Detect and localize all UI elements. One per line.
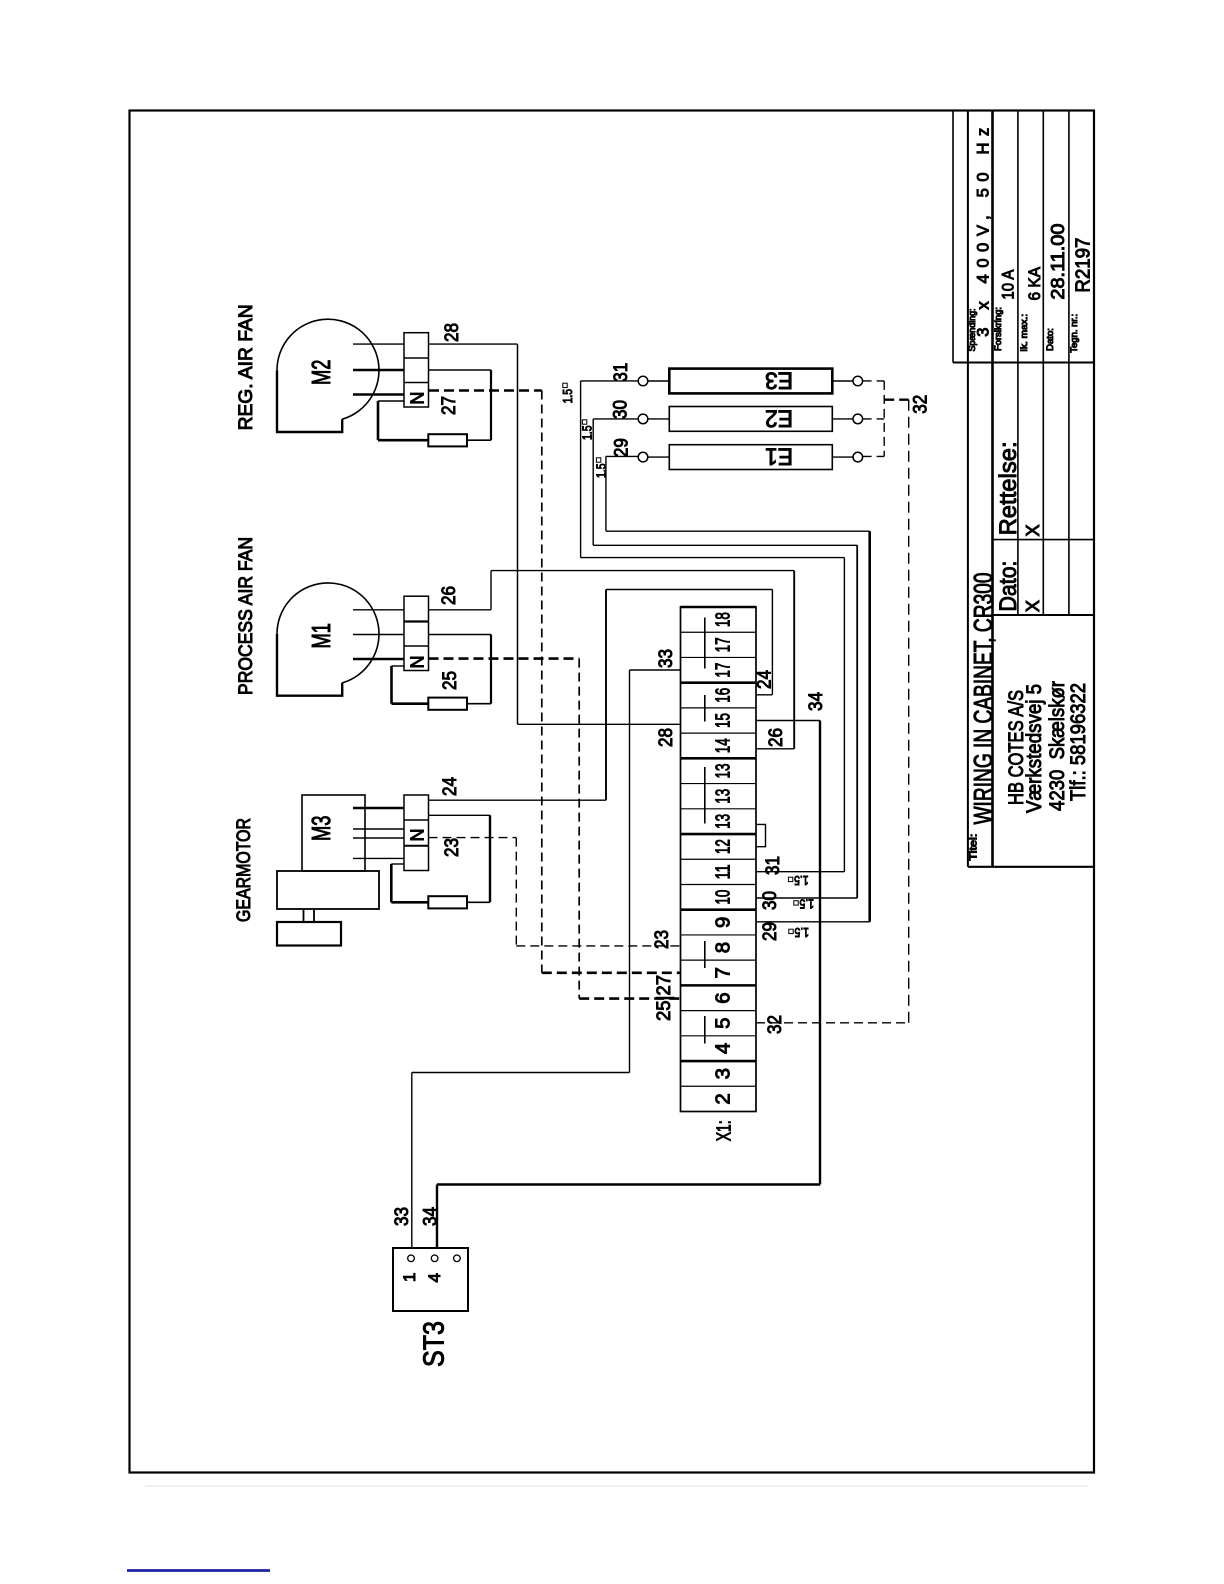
label REG. AIR FAN <box>236 304 257 430</box>
svg-text:Rettelse:: Rettelse: <box>995 441 1022 535</box>
heating element E3 <box>669 369 832 394</box>
svg-text:1.5: 1.5 <box>800 897 815 912</box>
label pin 1 <box>400 1273 419 1282</box>
svg-text:1.5: 1.5 <box>560 389 575 404</box>
label X1: <box>713 1120 736 1141</box>
svg-text:34: 34 <box>421 1207 442 1226</box>
label M2 <box>306 360 336 385</box>
svg-text:1: 1 <box>400 1273 419 1282</box>
svg-text:E2: E2 <box>765 404 793 431</box>
cross-section label 1.5mm2 <box>580 420 595 440</box>
wire 25 dashed (M1 N to X1:6) <box>429 659 681 999</box>
label 26 at M1 <box>439 586 460 605</box>
svg-text:N: N <box>407 656 427 669</box>
svg-text:M3: M3 <box>306 816 336 841</box>
svg-text:32: 32 <box>911 395 932 414</box>
terminal strip X1 body <box>681 607 757 1112</box>
E3 left terminal <box>638 376 648 386</box>
svg-text:25|27: 25|27 <box>654 975 675 1021</box>
E3 right terminal <box>853 376 863 386</box>
label 24 at M3 <box>440 777 461 796</box>
label 31 at E3 <box>611 363 632 382</box>
svg-text:1.5: 1.5 <box>794 873 809 888</box>
cross-section label 1.5mm2 <box>594 458 609 478</box>
svg-text:29: 29 <box>611 438 632 457</box>
label N (M1 terminal) <box>407 656 427 669</box>
blue footer line <box>127 1569 270 1572</box>
svg-text:GEARMOTOR: GEARMOTOR <box>234 818 255 922</box>
label 34 at ST3 <box>421 1207 442 1226</box>
svg-text:24: 24 <box>755 670 776 689</box>
terminal numbers X1 <box>712 612 735 1104</box>
wire 32 dashed (heaters common to X1:5) <box>756 381 909 1023</box>
M3 gearbox <box>277 871 379 909</box>
capacitor of M3 with loop wiring <box>391 815 490 908</box>
cross-section label 1.5mm2 <box>789 925 809 940</box>
svg-text:31: 31 <box>611 363 632 382</box>
svg-text:30: 30 <box>760 891 781 910</box>
svg-text:24: 24 <box>440 777 461 796</box>
M2 stub wires <box>353 344 404 394</box>
drawing frame border <box>130 111 1095 1473</box>
label M1 <box>306 623 336 648</box>
connector ST3 body <box>393 1248 468 1311</box>
E1 right terminal <box>853 452 863 462</box>
svg-text:33: 33 <box>392 1207 413 1226</box>
svg-text:17: 17 <box>712 637 735 652</box>
wire 28 (M2 to X1:15) <box>429 344 681 724</box>
ST3 pin 4 terminal <box>431 1255 438 1262</box>
title text WIRING IN CABINET CR300 <box>969 573 998 861</box>
wire 33 (ST3 pin1 to X1:17) <box>412 670 681 1248</box>
label 28 at M2 <box>442 323 463 342</box>
svg-text:13: 13 <box>712 814 735 829</box>
wire 24 (M3 to X1:16) <box>429 590 773 801</box>
E1 terminal stubs <box>648 456 853 458</box>
svg-text:28.11.00: 28.11.00 <box>1048 224 1068 300</box>
svg-text:32: 32 <box>765 1015 786 1034</box>
svg-text:3 x 400V, 50 Hz: 3 x 400V, 50 Hz <box>975 128 993 337</box>
svg-text:18: 18 <box>712 612 735 627</box>
M2 terminal box <box>404 333 429 407</box>
label N (M3 terminal) <box>407 829 427 842</box>
svg-text:Tegn. nr.:: Tegn. nr.: <box>1069 314 1080 353</box>
label 33 at X1 <box>656 649 677 668</box>
svg-text:Tlf.: 58196322: Tlf.: 58196322 <box>1066 683 1090 801</box>
svg-text:X: X <box>1023 524 1043 536</box>
svg-text:23: 23 <box>652 930 673 949</box>
ST3 pin 1 terminal <box>408 1255 415 1262</box>
svg-text:5: 5 <box>712 1018 735 1029</box>
svg-text:8: 8 <box>712 942 735 953</box>
svg-text:X: X <box>1023 600 1043 612</box>
E2 terminal stubs <box>648 418 853 420</box>
M3 output block <box>277 922 341 946</box>
E2 left terminal <box>638 414 648 424</box>
svg-text:15: 15 <box>712 713 735 728</box>
svg-text:33: 33 <box>656 649 677 668</box>
svg-text:M2: M2 <box>306 360 336 385</box>
motor M3 body <box>302 795 365 871</box>
svg-text:Dato:: Dato: <box>995 561 1022 612</box>
svg-text:26: 26 <box>766 728 787 747</box>
faint scan line <box>145 1485 1088 1487</box>
svg-text:Dato:: Dato: <box>1045 328 1056 351</box>
label 27 at M2 <box>439 396 460 415</box>
cross-section label 1.5mm2 <box>794 897 814 912</box>
svg-text:Forsikring:: Forsikring: <box>993 307 1004 351</box>
M1 stub wires <box>353 610 404 659</box>
svg-text:4: 4 <box>712 1043 735 1054</box>
svg-text:PROCESS AIR FAN: PROCESS AIR FAN <box>236 537 257 695</box>
wire 23 dashed (M3 N to X1:8) <box>429 838 681 946</box>
svg-text:23: 23 <box>442 838 463 857</box>
label 32 at heaters <box>911 395 932 414</box>
wire 30 (E2 to X1:10) <box>593 419 857 898</box>
svg-text:10 A: 10 A <box>999 269 1018 300</box>
svg-text:11: 11 <box>712 864 735 879</box>
motor M1 (PROCESS AIR FAN blower) <box>277 583 379 696</box>
label 24 at X1 <box>755 670 776 689</box>
svg-text:17: 17 <box>712 663 735 678</box>
svg-text:R2197: R2197 <box>1073 238 1095 293</box>
label 31 at X1 <box>763 856 784 875</box>
svg-text:M1: M1 <box>306 623 336 648</box>
svg-text:34: 34 <box>806 692 827 711</box>
heating element E1 <box>669 445 832 470</box>
svg-text:28: 28 <box>656 728 677 747</box>
capacitor of M1 with loop wiring <box>392 635 492 710</box>
svg-text:E1: E1 <box>765 443 793 470</box>
label E1 <box>765 443 793 470</box>
cross-section label 1.5mm2 <box>788 873 808 888</box>
label 34 at X1 <box>806 692 827 711</box>
title block revision texts <box>995 441 1043 612</box>
label ST3 <box>419 1321 451 1367</box>
heating element E2 <box>669 407 832 432</box>
E2 right terminal <box>853 414 863 424</box>
wire 31 (E3 to X1:11) <box>581 381 845 872</box>
svg-text:ST3: ST3 <box>419 1321 451 1367</box>
svg-text:12: 12 <box>712 839 735 854</box>
label 28 at X1 <box>656 728 677 747</box>
svg-text:25: 25 <box>440 671 461 690</box>
svg-text:X1:: X1: <box>713 1120 736 1141</box>
title block header texts <box>967 128 1095 353</box>
label 25|27 at X1 <box>654 975 675 1021</box>
label M3 <box>306 816 336 841</box>
label 30 at E2 <box>610 400 631 419</box>
svg-text:14: 14 <box>712 738 735 753</box>
motor M2 (REG. AIR FAN blower) <box>277 319 379 432</box>
label 32 at X1 <box>765 1015 786 1034</box>
label 29 at E1 <box>611 438 632 457</box>
wire 27 dashed (M2 N to X1:7) <box>429 391 681 973</box>
svg-text:29: 29 <box>760 922 781 941</box>
svg-text:1.5: 1.5 <box>580 426 595 441</box>
svg-text:6 KA: 6 KA <box>1025 266 1044 300</box>
label GEARMOTOR <box>234 818 255 922</box>
label E2 <box>765 404 793 431</box>
svg-text:1.5: 1.5 <box>795 925 810 940</box>
svg-text:WIRING IN CABINET, CR300: WIRING IN CABINET, CR300 <box>970 573 998 825</box>
svg-text:REG. AIR FAN: REG. AIR FAN <box>236 304 257 430</box>
label 26 at X1 <box>766 728 787 747</box>
svg-text:2: 2 <box>712 1093 735 1104</box>
wire 26 (M1 to X1:14) <box>429 571 795 749</box>
svg-text:N: N <box>407 829 427 842</box>
svg-text:1.5: 1.5 <box>594 464 609 479</box>
wire 29 (E1 to X1:9) <box>606 456 870 921</box>
label 33 at ST3 <box>392 1207 413 1226</box>
label E3 <box>765 367 793 394</box>
wire 34 (ST3 pin4 to X1:15) <box>437 721 820 1249</box>
X1 end bracket <box>756 824 766 846</box>
svg-text:Ik. max.:: Ik. max.: <box>1019 314 1030 352</box>
jumper link marks on X1 <box>704 618 706 1044</box>
M3 terminal box <box>404 795 429 871</box>
label N (M2 terminal) <box>407 392 427 405</box>
label 23 at X1 <box>652 930 673 949</box>
M3 shaft <box>304 909 315 922</box>
svg-text:30: 30 <box>610 400 631 419</box>
M3 stub wires <box>353 808 404 858</box>
svg-text:Værkstedsvej 5: Værkstedsvej 5 <box>1022 684 1046 813</box>
svg-text:13: 13 <box>712 763 735 778</box>
svg-text:7: 7 <box>712 967 735 978</box>
svg-text:28: 28 <box>442 323 463 342</box>
label 23 at M3 <box>442 838 463 857</box>
svg-text:16: 16 <box>712 688 735 703</box>
label 25 at M1 <box>440 671 461 690</box>
svg-text:13: 13 <box>712 789 735 804</box>
svg-text:26: 26 <box>439 586 460 605</box>
svg-text:27: 27 <box>439 396 460 415</box>
ST3 spare terminal <box>454 1255 461 1262</box>
label 30 at X1 <box>760 891 781 910</box>
company address block <box>1004 681 1090 813</box>
cross-section label 1.5mm2 <box>560 383 575 403</box>
svg-text:4: 4 <box>425 1273 444 1282</box>
svg-text:E3: E3 <box>765 367 793 394</box>
svg-text:Titel:: Titel: <box>969 834 980 861</box>
label 29 at X1 <box>760 922 781 941</box>
label PROCESS AIR FAN <box>236 537 257 695</box>
title block frame <box>953 111 1094 867</box>
svg-text:6: 6 <box>712 992 735 1003</box>
svg-text:9: 9 <box>712 917 735 928</box>
label pin 4 <box>425 1273 444 1282</box>
svg-text:3: 3 <box>712 1068 735 1079</box>
svg-text:N: N <box>407 392 427 405</box>
E3 terminal stubs <box>648 380 853 382</box>
capacitor of M2 with loop wiring <box>378 370 491 446</box>
svg-text:31: 31 <box>763 856 784 875</box>
E1 left terminal <box>638 452 648 462</box>
svg-text:10: 10 <box>712 890 735 905</box>
M1 terminal box <box>404 596 429 670</box>
